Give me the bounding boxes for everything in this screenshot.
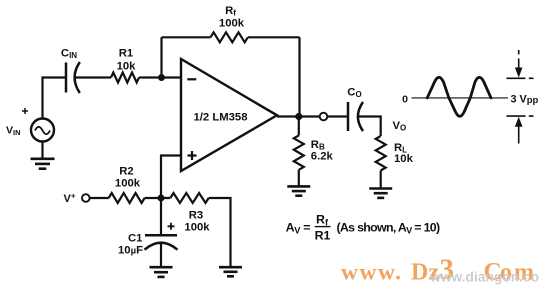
node A: inverting input junction — [158, 74, 165, 81]
svg-text:AV =: AV = — [286, 221, 311, 236]
svg-text:Rf: Rf — [225, 5, 236, 18]
op-amp minus input symbol — [187, 78, 196, 80]
wire: C1 to ground — [160, 243, 162, 267]
wire: RB top lead — [298, 117, 300, 136]
measure: top peak bar — [507, 77, 534, 79]
svg-text:10k: 10k — [117, 60, 137, 72]
wire: feedback top left segment — [162, 36, 211, 38]
wire: RB bottom lead — [298, 170, 300, 187]
svg-text:VO: VO — [393, 120, 407, 133]
resistor R1 10k — [111, 73, 139, 83]
ground: RB — [287, 186, 310, 195]
measure: bottom trough bar — [507, 115, 534, 117]
wire: op-amp output to open terminal — [277, 115, 320, 117]
measure: top arrow down — [518, 50, 520, 70]
svg-text:100k: 100k — [219, 18, 245, 30]
svg-text:CO: CO — [347, 86, 361, 99]
svg-text:VIN: VIN — [6, 125, 21, 138]
svg-text:10μF: 10μF — [118, 245, 143, 257]
resistor R3 100k — [170, 193, 208, 203]
svg-text:CIN: CIN — [61, 48, 77, 61]
capacitor C1 10uF — [145, 235, 178, 249]
svg-text:R1: R1 — [119, 48, 133, 60]
svg-text:R3: R3 — [189, 210, 203, 222]
svg-text:R2: R2 — [119, 166, 133, 178]
wire: R2 to bias node — [145, 197, 171, 199]
svg-text:6.2k: 6.2k — [311, 150, 334, 162]
resistor RL 10k — [376, 136, 386, 171]
wire: R1 to inverting input node to op-amp — [139, 76, 181, 78]
wire: RL bottom lead — [380, 171, 382, 189]
svg-text:R1: R1 — [315, 229, 331, 243]
resistor RB 6.2k — [294, 135, 304, 169]
svg-text:100k: 100k — [115, 177, 141, 189]
ground: R3 — [219, 267, 242, 276]
capacitor CO — [348, 102, 363, 131]
source plus polarity mark — [22, 108, 28, 114]
svg-text:Rf: Rf — [316, 213, 329, 228]
svg-text:1/2 LM358: 1/2 LM358 — [193, 111, 247, 123]
svg-text:10k: 10k — [394, 153, 414, 165]
node: output junction — [295, 113, 302, 120]
wire: R3 right lead down to ground — [209, 198, 231, 267]
node B: bias junction — [158, 195, 165, 202]
svg-text:3 Vpp: 3 Vpp — [511, 93, 539, 106]
svg-text:www.diangon.com: www.diangon.com — [429, 270, 540, 285]
wire: feedback vertical left — [160, 37, 162, 77]
ground: C1 — [150, 267, 173, 277]
resistor R2 100k — [109, 193, 145, 203]
wire: Cin to R1 — [76, 76, 112, 78]
svg-text:(As shown, AV = 10): (As shown, AV = 10) — [337, 221, 440, 236]
ground: Vin source — [31, 159, 55, 169]
wire: bias node down to C1 — [160, 198, 162, 235]
source VIN sine symbol — [35, 127, 50, 134]
capacitor CIN — [66, 62, 80, 93]
C1 plus polarity mark — [168, 223, 175, 230]
op-amp U1 1/2 LM358 — [181, 59, 277, 171]
formula fraction bar — [315, 226, 331, 228]
waveform sine — [427, 77, 491, 116]
terminal: V+ open circle — [82, 194, 90, 202]
source VIN circle — [31, 119, 54, 142]
wire: feedback top right segment — [248, 36, 300, 38]
wire: bias node up to non-inverting input — [161, 156, 181, 199]
resistor Rf 100k — [211, 32, 248, 42]
wire: Vin source to Cin — [43, 78, 66, 119]
op-amp plus input symbol — [188, 151, 197, 160]
wire: Vin source bottom to ground — [41, 142, 43, 159]
wire: terminal to Co — [327, 115, 347, 117]
wire: V+ terminal to R2 — [90, 197, 109, 199]
waveform zero axis — [412, 97, 509, 99]
wire: Co to RL corner — [358, 117, 380, 137]
svg-text:www.: www. — [341, 260, 403, 286]
svg-text:C1: C1 — [128, 232, 142, 244]
svg-text:100k: 100k — [184, 222, 210, 234]
terminal: output open circle — [320, 113, 328, 121]
watermark orange www. Dz3w.Com — [341, 254, 536, 286]
wire: feedback vertical right to output node — [298, 37, 300, 116]
measure: bottom arrow up — [518, 127, 520, 144]
svg-text:0: 0 — [402, 93, 408, 105]
ground: RL — [369, 189, 392, 198]
svg-text:V+: V+ — [64, 192, 76, 206]
